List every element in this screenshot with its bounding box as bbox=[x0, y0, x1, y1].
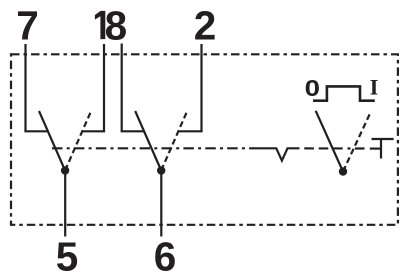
svg-text:7: 7 bbox=[16, 3, 39, 49]
svg-text:0: 0 bbox=[305, 76, 320, 101]
svg-text:6: 6 bbox=[154, 233, 177, 275]
svg-text:I: I bbox=[370, 74, 379, 99]
svg-text:5: 5 bbox=[56, 233, 79, 275]
svg-text:2: 2 bbox=[194, 3, 217, 49]
svg-text:8: 8 bbox=[105, 3, 128, 49]
